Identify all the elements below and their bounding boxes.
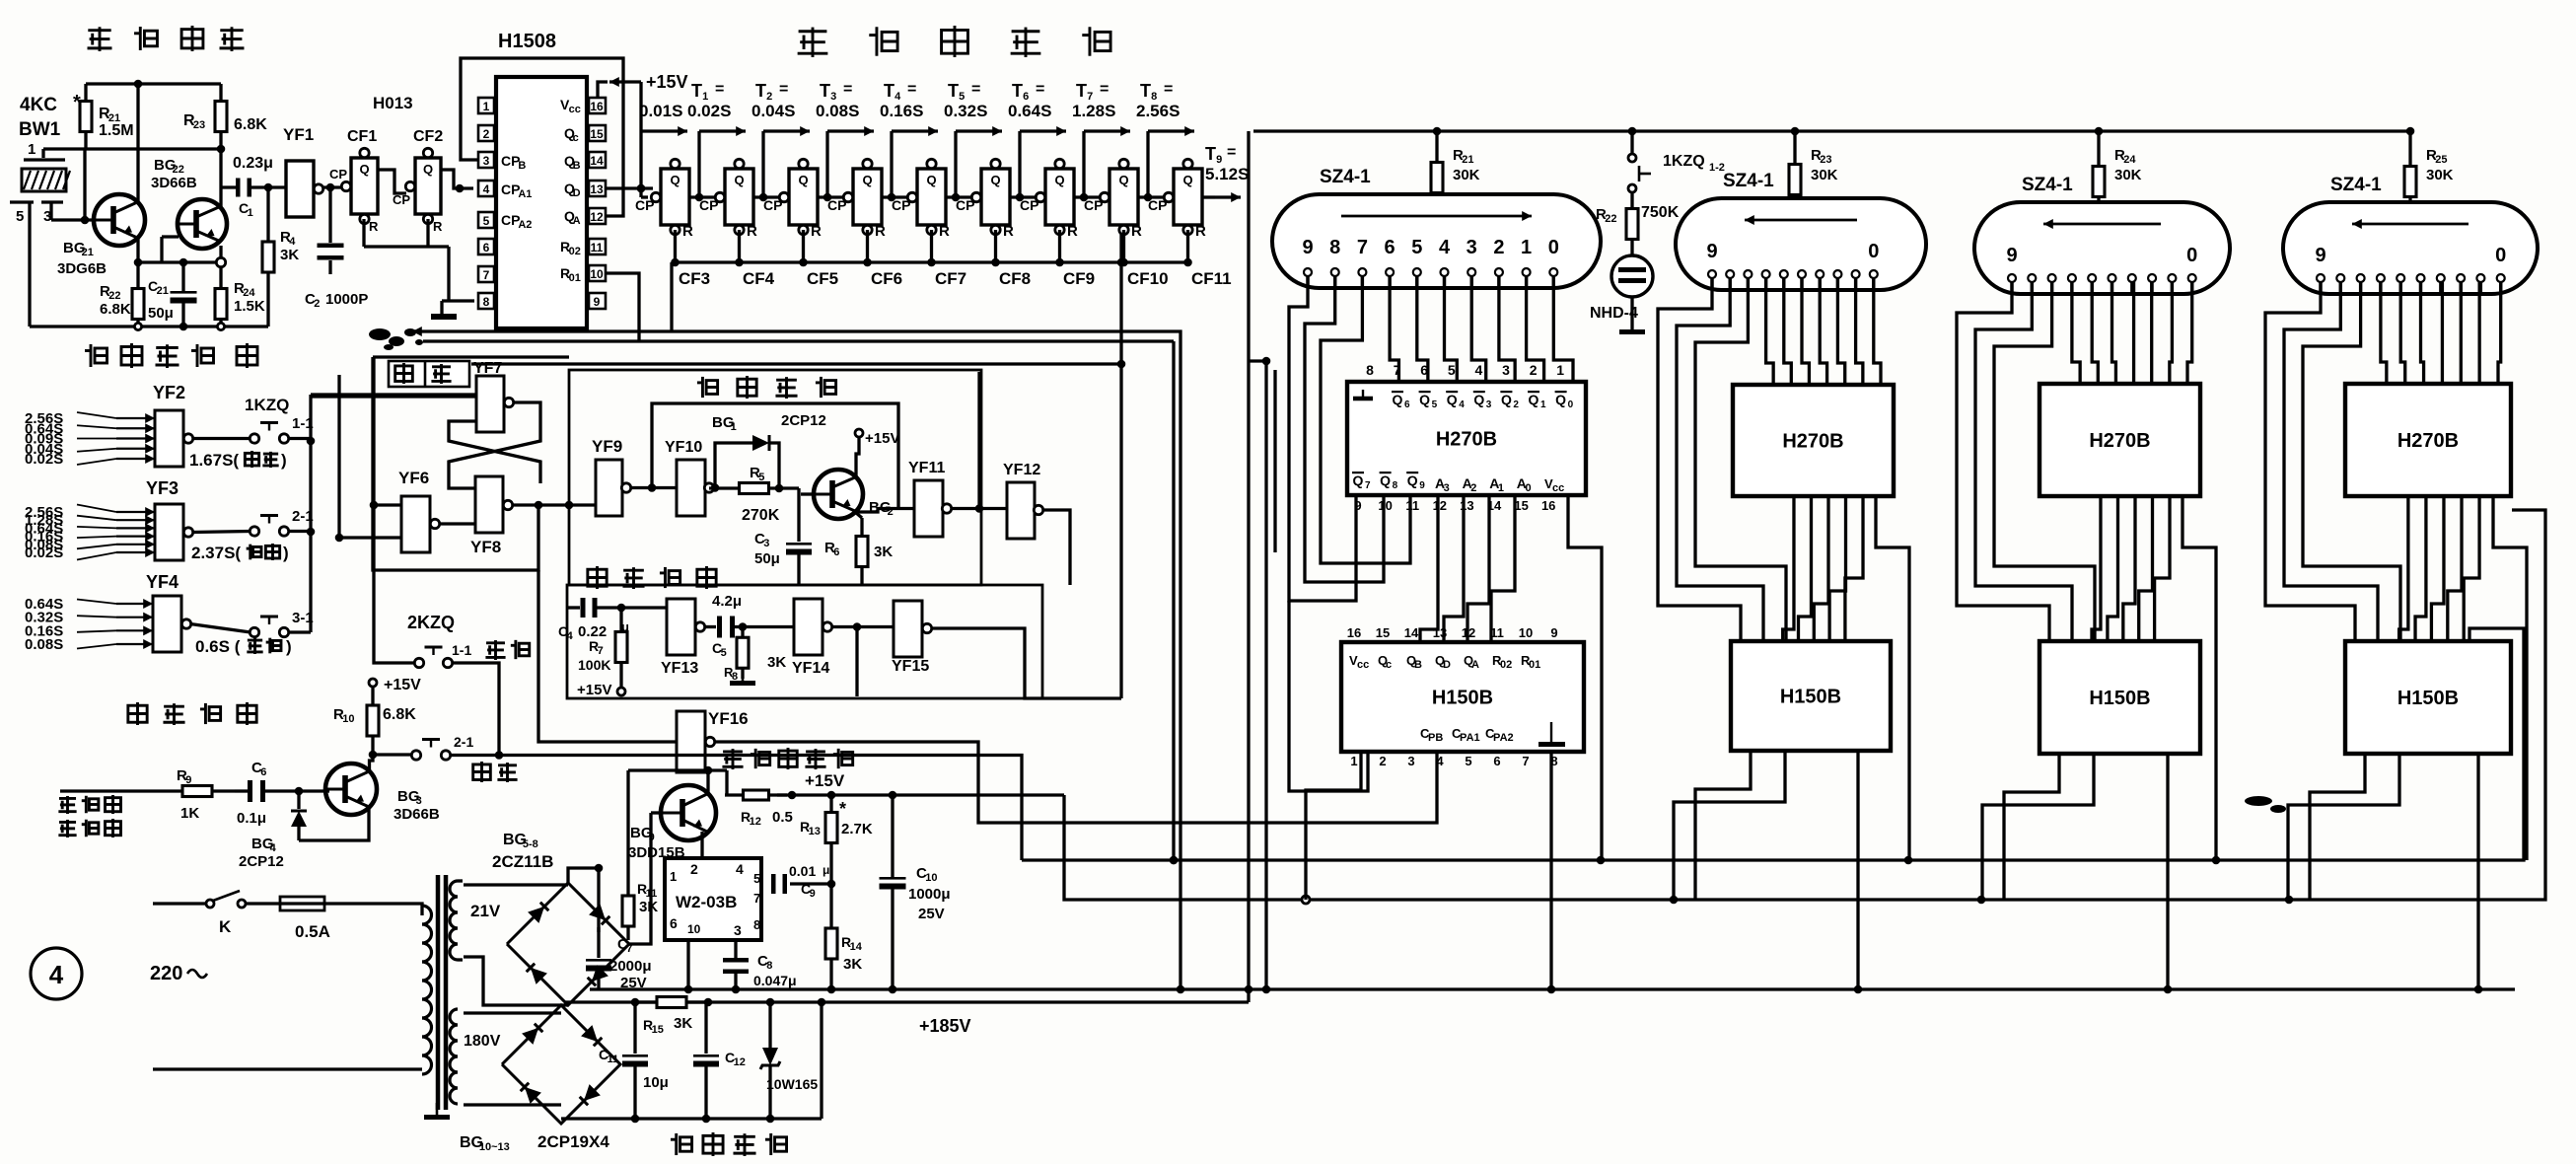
wire CF10 Q-CP — [1138, 192, 1174, 201]
svg-text:PA2: PA2 — [1493, 732, 1514, 744]
label Qbar8 bottom — [1380, 472, 1398, 491]
svg-text:3: 3 — [1407, 754, 1414, 768]
ic H150B #2 — [1731, 641, 1891, 751]
svg-text:cc: cc — [1552, 482, 1564, 494]
label digit 0 — [2186, 245, 2197, 266]
svg-text:4: 4 — [1459, 400, 1465, 410]
gate YF6 — [398, 469, 440, 552]
gate YF14 — [792, 599, 832, 677]
wire CF4 R — [738, 230, 741, 262]
svg-text:02: 02 — [569, 246, 581, 257]
svg-text:=: = — [843, 81, 852, 98]
wire bridge1 out — [568, 813, 651, 944]
svg-text:A1: A1 — [518, 188, 532, 200]
flipflop CF2 — [393, 128, 443, 234]
svg-text:7: 7 — [753, 891, 760, 906]
svg-text:=: = — [1036, 81, 1044, 98]
svg-text:+15V: +15V — [646, 72, 688, 92]
svg-text:16: 16 — [1541, 498, 1555, 513]
svg-text:W2-03B: W2-03B — [676, 893, 737, 911]
svg-text:+15V: +15V — [384, 677, 421, 693]
svg-text:6: 6 — [1404, 400, 1410, 410]
wire y369 line — [471, 362, 1121, 365]
svg-text:0.1μ: 0.1μ — [237, 810, 266, 827]
label T6 — [1008, 81, 1051, 120]
svg-text:YF11: YF11 — [908, 460, 945, 476]
svg-text:4: 4 — [1439, 237, 1451, 258]
svg-text:R: R — [682, 223, 693, 240]
svg-text:0: 0 — [2186, 245, 2197, 266]
wire smudge marks — [369, 328, 2286, 813]
wire tube digit6 — [2072, 282, 2080, 384]
wire T5 tap — [952, 126, 1002, 201]
svg-text:5: 5 — [483, 214, 490, 228]
transformer secondary 21V — [450, 881, 501, 960]
gate YF8 — [470, 476, 513, 556]
ic H150B #1 — [1341, 642, 1584, 752]
wire BG2 emitter — [855, 512, 862, 518]
switch K — [206, 891, 246, 936]
svg-text:9: 9 — [1550, 625, 1557, 640]
svg-text:3: 3 — [734, 922, 742, 938]
wire YF12 out — [1042, 510, 1070, 585]
svg-text:): ) — [286, 637, 292, 656]
label BG5-8 2CZ11B — [492, 832, 553, 871]
svg-text:6: 6 — [260, 766, 266, 778]
svg-text:R: R — [1003, 223, 1014, 240]
svg-text:10W165: 10W165 — [766, 1076, 818, 1092]
wire H150B pin1 route — [1674, 751, 1785, 900]
svg-text:30K: 30K — [2114, 167, 2142, 183]
capacitor C3 — [754, 488, 812, 585]
pin 12 H150B — [1462, 625, 1475, 640]
svg-text:7: 7 — [1394, 362, 1401, 378]
wire R12 top — [725, 770, 728, 795]
label T7 — [1072, 81, 1115, 120]
wire H150B gnd drop — [2474, 754, 2483, 993]
wire tube digit1 — [1527, 276, 1544, 382]
label digit 0 — [1548, 237, 1559, 258]
wire YF9-YF10 — [630, 483, 677, 492]
svg-text:2000μ: 2000μ — [609, 958, 652, 975]
wire YF1 out — [322, 183, 344, 192]
label SZ4-1 #4 — [2330, 175, 2382, 195]
pin 6 H270B — [1420, 362, 1428, 378]
wire tube digit4 — [1802, 278, 1809, 385]
label BG10-13 2CP19X4 — [460, 1132, 609, 1153]
svg-text:11: 11 — [591, 241, 604, 255]
svg-text:0.64S: 0.64S — [1008, 102, 1051, 120]
svg-text:7: 7 — [1357, 237, 1368, 258]
svg-text:0: 0 — [2495, 245, 2506, 266]
svg-text:YF12: YF12 — [1003, 462, 1040, 478]
pin 9 H150B — [1550, 625, 1557, 640]
svg-text:21: 21 — [82, 247, 94, 258]
wire tube digit3 — [1471, 276, 1486, 382]
svg-text:3: 3 — [1467, 237, 1477, 258]
wire CF9 Q-CP — [1074, 192, 1109, 201]
wire 185 line — [564, 1000, 1249, 1003]
wire reset bus down — [672, 258, 1125, 331]
wire CF3 R — [674, 230, 677, 262]
svg-text:8: 8 — [753, 917, 760, 932]
gate YF13 — [661, 599, 705, 677]
capacitor C12 — [693, 1002, 746, 1119]
wire x993 up — [977, 372, 980, 509]
svg-text:1: 1 — [1350, 754, 1357, 768]
svg-text:5-8: 5-8 — [523, 838, 538, 850]
label digit 5 — [1411, 237, 1422, 258]
ic H270B #2 — [1733, 385, 1894, 496]
label R01 H150B — [1521, 653, 1540, 671]
wire A-1 link — [2464, 496, 2479, 641]
svg-text:1.5M: 1.5M — [99, 122, 134, 139]
ic H1508 body — [496, 31, 587, 328]
wire H150B pin1 route — [1982, 754, 2094, 900]
pin 7 H1508 — [478, 266, 494, 282]
node base junction BG21 — [81, 149, 90, 224]
svg-text:30K: 30K — [1453, 167, 1480, 183]
resistor R13 — [800, 795, 873, 860]
node C5-R8 — [739, 622, 748, 631]
wire gnd rail — [590, 985, 2515, 994]
label H013 — [373, 94, 413, 112]
wire tube digit3 — [1820, 278, 1826, 385]
svg-text:Q: Q — [1380, 473, 1391, 488]
svg-text:1.5K: 1.5K — [234, 298, 265, 315]
label QD H150B — [1435, 653, 1451, 671]
svg-text:Q: Q — [1054, 173, 1064, 187]
svg-text:Q: Q — [1182, 173, 1192, 187]
svg-text:YF14: YF14 — [792, 660, 829, 677]
wire tube digit5 — [1784, 278, 1791, 385]
svg-text:3: 3 — [1444, 482, 1450, 494]
pin 8 H150B — [1550, 754, 1557, 768]
resistor R7 — [577, 608, 627, 698]
svg-text:YF1: YF1 — [283, 125, 314, 144]
svg-text:YF3: YF3 — [146, 478, 179, 498]
title 显示单稳 — [697, 376, 836, 399]
svg-text:1: 1 — [670, 869, 677, 884]
wire YF14 out — [831, 622, 894, 631]
label digit 9 — [2315, 245, 2326, 266]
svg-text:2CP19X4: 2CP19X4 — [537, 1132, 609, 1151]
svg-text:6.8K: 6.8K — [234, 116, 267, 133]
wire A0 link — [1491, 495, 1515, 642]
svg-text:10~13: 10~13 — [479, 1141, 510, 1153]
svg-text:cc: cc — [569, 104, 581, 115]
pin 2 H150B — [1379, 754, 1386, 768]
svg-text:PA1: PA1 — [1460, 732, 1480, 744]
label Vcc — [560, 97, 581, 115]
wire T2 tap — [759, 126, 810, 201]
svg-text:25V: 25V — [918, 906, 945, 922]
label Qbar7 bottom — [1352, 472, 1371, 491]
pin 15 H270B — [1514, 498, 1528, 513]
wire A2 link — [2415, 496, 2426, 641]
label R02 — [560, 239, 581, 257]
svg-text:1: 1 — [1556, 362, 1564, 378]
label 220V — [150, 963, 207, 984]
svg-text:1KZQ: 1KZQ — [1663, 153, 1705, 170]
label digit 3 — [1467, 237, 1477, 258]
wire tube digit1 — [2477, 282, 2480, 384]
label CF11 — [1191, 269, 1232, 288]
pin 14 H150B — [1404, 625, 1419, 640]
svg-text:0: 0 — [1525, 482, 1531, 494]
svg-text:12: 12 — [590, 210, 604, 224]
svg-text:0.32S: 0.32S — [944, 102, 987, 120]
pin 14 H1508 — [589, 152, 606, 168]
wire H150B gnd drop — [1854, 751, 1863, 993]
svg-text:10: 10 — [687, 922, 701, 936]
svg-text:1: 1 — [1540, 400, 1546, 410]
label +185V — [919, 1016, 971, 1036]
svg-text:3K: 3K — [280, 247, 299, 263]
svg-text:8: 8 — [732, 671, 738, 683]
wire tube digit3 — [2441, 282, 2444, 384]
svg-text:12: 12 — [750, 816, 761, 828]
svg-text:YF4: YF4 — [146, 572, 179, 592]
svg-text:0.5A: 0.5A — [295, 922, 330, 941]
bridge rectifier BG10-13 — [502, 1005, 620, 1124]
svg-text:4: 4 — [736, 861, 744, 877]
label 2.37S 速度 — [191, 544, 289, 562]
svg-text:Q: Q — [1555, 392, 1566, 407]
svg-text:=: = — [907, 81, 916, 98]
wire H150B cp1 — [2310, 754, 2365, 900]
svg-text:1: 1 — [1498, 482, 1504, 494]
wire CF7 R — [930, 230, 933, 262]
node r15 junctions — [631, 998, 826, 1007]
svg-text:750K: 750K — [1641, 204, 1680, 221]
svg-text:1: 1 — [248, 207, 253, 219]
pin 8 H1508 — [478, 293, 494, 309]
resistor R21 30K — [1431, 135, 1480, 220]
svg-text:3D66B: 3D66B — [151, 175, 197, 191]
svg-text:13: 13 — [590, 182, 604, 196]
wire YF15 out — [931, 628, 1121, 698]
wire BG22 collector — [219, 149, 222, 207]
svg-text:CF1: CF1 — [347, 128, 377, 145]
svg-text:4: 4 — [1475, 362, 1483, 378]
wire H150B gnd drop — [2164, 754, 2173, 993]
gate YF15 — [892, 601, 932, 675]
wire T1 tap — [695, 126, 746, 201]
resistor R11 — [622, 881, 658, 940]
svg-text:2KZQ: 2KZQ — [407, 613, 455, 632]
wire anode top bus — [1253, 127, 2414, 136]
svg-text:SZ4-1: SZ4-1 — [1320, 167, 1371, 187]
transistor BG9 — [628, 785, 716, 861]
wire A-1 link — [2155, 496, 2170, 641]
label SZ4-1 #1 — [1320, 167, 1371, 187]
wire tube digit6 — [1766, 278, 1774, 385]
svg-text:0.6S (: 0.6S ( — [195, 637, 241, 656]
wire mains L — [153, 902, 206, 905]
wire rail corner — [1064, 510, 2545, 900]
wire bus y912 circle — [1302, 896, 1310, 904]
label 4KC — [20, 95, 57, 115]
svg-text:21: 21 — [157, 285, 169, 297]
pin 16 H270B — [1541, 498, 1555, 513]
ic H270B #4 — [2345, 384, 2511, 496]
svg-text:4: 4 — [567, 630, 574, 642]
svg-text:100K: 100K — [578, 657, 610, 673]
wire YF7 input — [311, 395, 476, 398]
svg-text:YF6: YF6 — [398, 469, 429, 487]
svg-text:B: B — [573, 160, 581, 172]
label CF4 — [743, 269, 775, 288]
svg-text:11: 11 — [1490, 625, 1504, 640]
label Qbar0 — [1555, 391, 1574, 410]
label CF7 — [935, 269, 966, 288]
svg-text:R: R — [747, 223, 757, 240]
svg-text:0.02S: 0.02S — [687, 102, 731, 120]
svg-text:50μ: 50μ — [754, 550, 780, 567]
svg-text:3K: 3K — [674, 1015, 692, 1032]
node R10 bottom — [369, 751, 378, 760]
svg-text:CF2: CF2 — [413, 128, 443, 145]
svg-text:3K: 3K — [639, 899, 658, 915]
svg-text:3K: 3K — [874, 544, 893, 560]
label Vcc H270B — [1544, 476, 1564, 494]
title 输入电路 — [128, 702, 256, 725]
svg-text:Q: Q — [1419, 392, 1430, 407]
svg-text:): ) — [281, 451, 287, 470]
pin 11 H270B — [1405, 498, 1419, 513]
label pin 3 — [43, 208, 51, 225]
svg-text:9: 9 — [2315, 245, 2326, 266]
pin 16 H1508 — [589, 98, 606, 113]
enclosure display-monostable — [569, 370, 981, 585]
label CPA1 — [501, 182, 532, 200]
svg-text:3: 3 — [483, 154, 490, 168]
svg-text:3K: 3K — [843, 956, 862, 973]
svg-text:R: R — [1195, 223, 1206, 240]
wire selector bus — [311, 395, 476, 632]
wire pin13 out — [607, 184, 653, 193]
svg-text:): ) — [283, 544, 289, 562]
wire digit9 route — [1289, 276, 1356, 601]
label R01 — [560, 265, 581, 284]
wire A2 link — [2108, 496, 2118, 641]
svg-text:15: 15 — [652, 1024, 664, 1036]
svg-text:+15V: +15V — [865, 430, 899, 447]
svg-text:8: 8 — [1393, 480, 1398, 491]
wire CF8 Q-CP — [1010, 192, 1045, 201]
wire CF9 R — [1058, 230, 1061, 262]
svg-text:5: 5 — [1465, 754, 1471, 768]
svg-text:SZ4-1: SZ4-1 — [1723, 171, 1774, 191]
wire YF9 in — [512, 501, 596, 510]
svg-text:15: 15 — [1514, 498, 1528, 513]
nixie tube SZ4-1 #3 — [1974, 202, 2230, 294]
wire tube digit5 — [2092, 282, 2098, 384]
wire R10-switch — [373, 753, 411, 756]
crystal BW1 — [22, 169, 70, 191]
enclosure reset-monostable — [567, 585, 1042, 698]
wire gate top link — [0, 0, 1, 1]
wire x1137 vert — [1117, 233, 1126, 698]
wire CF10 R — [1122, 230, 1125, 262]
svg-text:3K: 3K — [767, 654, 786, 671]
svg-text:7: 7 — [1365, 480, 1371, 491]
gate YF12 — [1003, 462, 1043, 539]
svg-text:30K: 30K — [2426, 167, 2454, 183]
resistor R22 — [100, 281, 144, 327]
svg-text:R: R — [939, 223, 950, 240]
label digit 9 — [1302, 237, 1313, 258]
label Qbar5 — [1419, 391, 1438, 410]
wire CF4 Q-CP — [753, 192, 789, 201]
pin 6 H150B — [1493, 754, 1500, 768]
wire T8 tap — [1144, 126, 1194, 201]
wire tube digit2 — [1837, 278, 1844, 385]
wire YF6 out — [439, 522, 475, 525]
label QB H150B — [1406, 653, 1422, 671]
gate YF9 — [592, 437, 631, 516]
svg-text:6: 6 — [1493, 754, 1500, 768]
wire bus y872 dots — [1170, 856, 2221, 865]
svg-text:16: 16 — [1347, 625, 1361, 640]
switch 1KZQ 1-1 — [245, 396, 314, 432]
svg-text:9: 9 — [2006, 245, 2017, 266]
label H270B gnd pin8 — [1353, 390, 1373, 399]
svg-text:2: 2 — [1470, 482, 1476, 494]
wire CF5 Q-CP — [818, 192, 853, 201]
svg-text:21: 21 — [1462, 154, 1473, 166]
svg-text:CF11: CF11 — [1191, 269, 1232, 288]
svg-text:11: 11 — [608, 1054, 619, 1065]
svg-text:02: 02 — [1500, 659, 1512, 671]
wire YF9 offset — [0, 0, 1, 1]
svg-text:H270B: H270B — [2397, 430, 2459, 452]
wire H150B cp1 — [1695, 751, 1751, 900]
wire reset line right — [672, 331, 1184, 993]
svg-text:9: 9 — [594, 295, 601, 309]
resistor R5 — [709, 465, 799, 524]
title 稳压电源 — [671, 1132, 787, 1156]
svg-text:9: 9 — [1302, 237, 1313, 258]
label Qc — [564, 125, 579, 144]
flipflop CF9 — [1020, 159, 1078, 240]
svg-text:2: 2 — [1513, 400, 1519, 410]
label 脉冲信号输入 — [58, 795, 120, 837]
svg-text:T: T — [1076, 81, 1087, 101]
svg-text:T: T — [755, 81, 766, 101]
wire y346 line — [423, 339, 1174, 342]
transformer core — [438, 875, 446, 1110]
label 1.67S 频率 — [189, 451, 287, 470]
svg-text:Q: Q — [1529, 392, 1539, 407]
gate YF2 — [25, 383, 289, 468]
gate YF1 — [283, 125, 323, 217]
ic H270B #3 — [2039, 384, 2200, 496]
pin 4 H1508 — [478, 181, 494, 196]
nixie tube SZ4-1 #2 — [1676, 198, 1926, 290]
wire A1 link — [2123, 496, 2135, 641]
svg-text:YF8: YF8 — [470, 538, 501, 556]
nixie tube SZ4-1 #4 — [2283, 202, 2538, 294]
flipflop CF5 — [763, 159, 822, 240]
wire tube digit4 — [1445, 276, 1458, 382]
svg-text:R: R — [369, 219, 379, 234]
svg-text:YF16: YF16 — [708, 709, 749, 728]
flipflop CF4 — [699, 159, 757, 240]
pin 14 H270B — [1487, 498, 1502, 513]
wire digit8 route — [1975, 282, 2072, 641]
